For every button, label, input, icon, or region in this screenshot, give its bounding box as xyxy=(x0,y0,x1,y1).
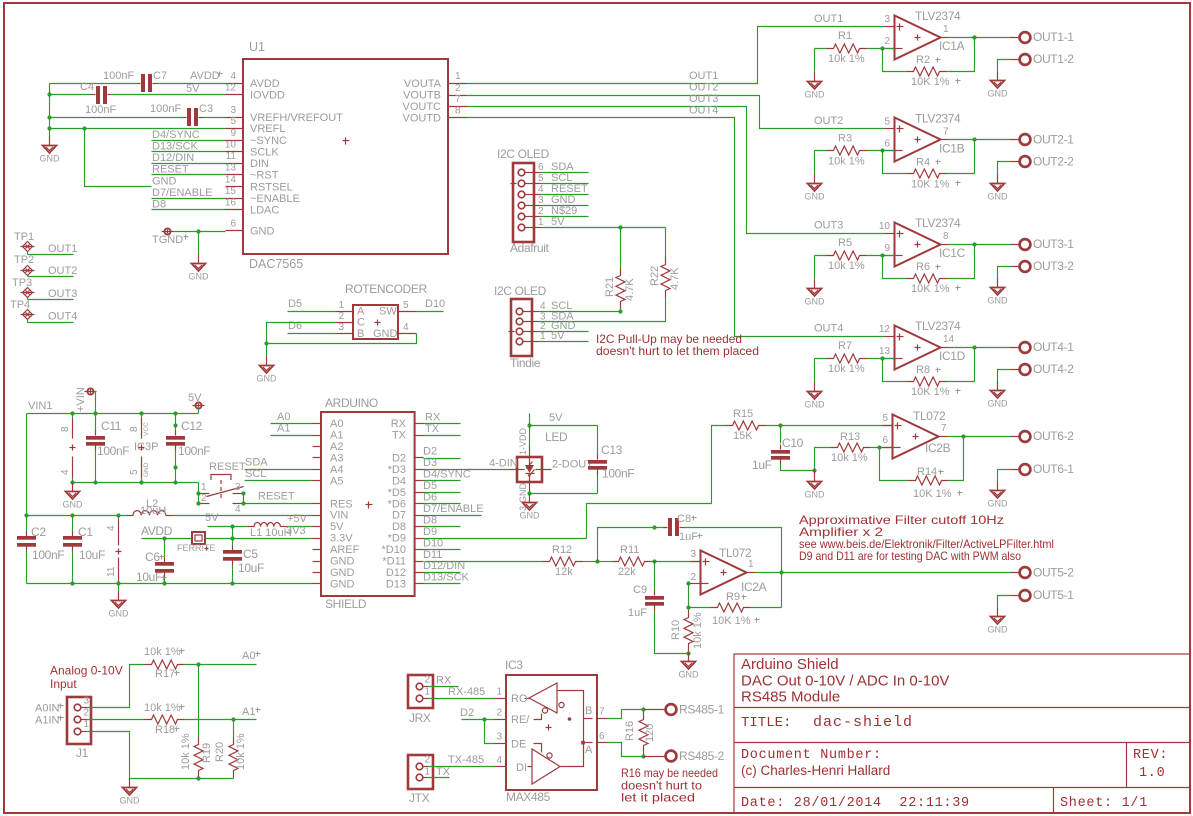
ground symbol GND under OUT6-1 xyxy=(997,482,999,491)
svg-text:7: 7 xyxy=(455,94,461,105)
capacitor C4 100nF xyxy=(96,86,100,104)
wire net D4/SYNC stub xyxy=(424,480,461,482)
svg-text:IC2A: IC2A xyxy=(741,580,767,594)
ground symbol GND under OUT1-2 xyxy=(997,72,999,81)
svg-text:3: 3 xyxy=(230,105,236,116)
svg-text:R15: R15 xyxy=(733,408,753,420)
op-amp power pins IC2P pin8 pin4 xyxy=(72,414,74,419)
svg-text:GND: GND xyxy=(988,192,1009,202)
output pad OUT1-2 xyxy=(1011,59,1020,61)
svg-text:5: 5 xyxy=(538,173,544,184)
svg-text:10: 10 xyxy=(879,221,891,232)
wire net OUT2 stub xyxy=(27,276,29,277)
svg-text:C1: C1 xyxy=(78,525,93,539)
IC ARDUINO SHIELD body xyxy=(321,412,415,596)
svg-text:R14: R14 xyxy=(917,466,937,478)
svg-text:10k 1%: 10k 1% xyxy=(692,612,704,649)
wire net A1 to arduino xyxy=(271,435,313,437)
svg-text:12: 12 xyxy=(225,83,237,94)
svg-text:14: 14 xyxy=(943,334,955,345)
svg-text:ARDUINO: ARDUINO xyxy=(325,396,378,410)
ground symbol GND under OUT4-2 xyxy=(997,382,999,391)
svg-text:let it placed: let it placed xyxy=(621,791,695,805)
svg-text:~ENABLE: ~ENABLE xyxy=(250,193,300,205)
svg-text:6: 6 xyxy=(884,139,890,150)
wire R1 right junction to inverting input xyxy=(867,48,895,50)
wire net AVDD top rail xyxy=(49,84,51,138)
LED diode symbol xyxy=(518,469,525,471)
svg-text:JRX: JRX xyxy=(409,711,431,725)
wire net SDA from Adafruit xyxy=(541,172,589,174)
wire net D7/ENABLE stub xyxy=(424,515,482,517)
svg-text:R22: R22 xyxy=(649,266,661,286)
svg-text:10K 1%: 10K 1% xyxy=(911,386,950,398)
wire output of IC1A xyxy=(949,37,1013,39)
svg-text:OUT3: OUT3 xyxy=(48,288,77,300)
svg-text:TL072: TL072 xyxy=(719,546,752,560)
svg-text:DIN: DIN xyxy=(250,158,269,170)
svg-text:DAC Out 0-10V / ADC In 0-10V: DAC Out 0-10V / ADC In 0-10V xyxy=(741,673,949,690)
wire IC2A output to OUT5-2 xyxy=(755,572,1013,574)
svg-text:100nF: 100nF xyxy=(103,70,134,82)
svg-text:SCLK: SCLK xyxy=(250,147,279,159)
svg-text:D8: D8 xyxy=(152,199,166,211)
svg-text:GND: GND xyxy=(988,625,1009,635)
svg-text:OUT3: OUT3 xyxy=(689,93,718,105)
svg-text:OUT1: OUT1 xyxy=(48,243,77,255)
svg-text:+VIN: +VIN xyxy=(75,387,87,412)
svg-text:TP2: TP2 xyxy=(14,254,34,266)
svg-text:IC1B: IC1B xyxy=(939,142,965,156)
svg-text:120: 120 xyxy=(644,724,656,742)
svg-text:7: 7 xyxy=(943,127,949,138)
svg-text:R19: R19 xyxy=(201,743,213,763)
svg-text:~RST: ~RST xyxy=(250,170,279,182)
svg-text:4: 4 xyxy=(60,469,71,475)
svg-text:OUT1-1: OUT1-1 xyxy=(1033,30,1074,44)
svg-text:R8: R8 xyxy=(916,364,930,376)
svg-text:1: 1 xyxy=(338,300,344,311)
svg-text:D7: D7 xyxy=(392,510,406,522)
wire LED GND to C13 bottom xyxy=(530,493,598,495)
svg-text:RX: RX xyxy=(436,675,452,687)
svg-text:4-DIN: 4-DIN xyxy=(489,458,518,470)
ground symbol GND under TGND xyxy=(198,255,200,264)
test point TP1 xyxy=(23,242,33,252)
svg-text:4: 4 xyxy=(235,504,241,515)
JRX pins xyxy=(416,683,423,690)
svg-text:A1: A1 xyxy=(330,430,343,442)
svg-text:2: 2 xyxy=(538,206,544,217)
svg-text:R13: R13 xyxy=(840,431,860,443)
svg-text:C4: C4 xyxy=(80,81,94,93)
test point TGND xyxy=(164,228,170,234)
svg-text:D7/ENABLE: D7/ENABLE xyxy=(423,503,484,515)
svg-text:Tindie: Tindie xyxy=(510,356,541,370)
svg-text:15K: 15K xyxy=(733,430,753,442)
LED pin DIN xyxy=(509,469,518,471)
svg-text:RS485 Module: RS485 Module xyxy=(741,689,840,706)
svg-text:TLV2374: TLV2374 xyxy=(915,216,961,230)
svg-text:10K 1%: 10K 1% xyxy=(913,488,952,500)
svg-text:R9: R9 xyxy=(726,591,740,603)
svg-text:1.0: 1.0 xyxy=(1139,766,1165,781)
wire output of IC1C xyxy=(949,244,1013,246)
wire GND rail under C11 C12 xyxy=(73,482,199,484)
rotary encoder body ROTENCODER xyxy=(353,305,398,339)
svg-text:10k 1%: 10k 1% xyxy=(180,733,192,770)
svg-text:9: 9 xyxy=(884,243,890,254)
wire net VIN1 top rail xyxy=(27,413,199,415)
svg-text:100nF: 100nF xyxy=(97,444,129,458)
connector JTX body xyxy=(408,755,433,789)
svg-text:*D3: *D3 xyxy=(388,464,406,476)
LED pin GND xyxy=(529,483,531,494)
wire net from D9 filter riser to R15 xyxy=(587,426,726,539)
svg-text:AVDD: AVDD xyxy=(141,524,173,538)
svg-text:TX-485: TX-485 xyxy=(448,754,484,766)
svg-text:3: 3 xyxy=(538,195,544,206)
wire net RESET from Adafruit xyxy=(541,194,589,196)
Tindie connector pins xyxy=(523,311,539,313)
svg-text:AVDD: AVDD xyxy=(250,78,280,90)
svg-text:R5: R5 xyxy=(838,237,852,249)
svg-text:C2: C2 xyxy=(31,525,46,539)
ground symbol GND under OUT3-2 xyxy=(997,279,999,288)
wire net SDA to Tindie xyxy=(539,321,589,323)
resistor R14 10K 1% feedback xyxy=(880,448,909,481)
svg-text:5: 5 xyxy=(882,413,888,424)
svg-text:10k 1%: 10k 1% xyxy=(828,260,865,272)
svg-text:RE/: RE/ xyxy=(511,714,530,726)
svg-text:dac-shield: dac-shield xyxy=(813,714,913,731)
MAX485 internal enable wires xyxy=(534,714,542,720)
svg-text:~SYNC: ~SYNC xyxy=(250,135,287,147)
test point TP3 xyxy=(23,288,33,298)
wire OUT1-2 to ground xyxy=(998,60,1011,72)
svg-text:1uF: 1uF xyxy=(679,531,698,543)
svg-text:GND: GND xyxy=(189,272,210,282)
wire net D5 stub xyxy=(424,492,461,494)
svg-text:D6: D6 xyxy=(288,320,302,332)
wire net SDA to arduino A4 xyxy=(245,469,313,471)
svg-text:OUT4: OUT4 xyxy=(689,105,718,117)
svg-text:12k: 12k xyxy=(555,566,573,578)
svg-text:R11: R11 xyxy=(620,544,639,556)
svg-text:RESET: RESET xyxy=(258,491,295,503)
wire net VREFH row xyxy=(50,117,183,119)
svg-text:B: B xyxy=(585,705,592,717)
svg-text:A: A xyxy=(585,744,593,756)
LED WS2812 body xyxy=(517,457,542,482)
output pad OUT1-1 xyxy=(1011,37,1020,39)
svg-text:6: 6 xyxy=(599,731,605,742)
wire VREFL to GND pin14 xyxy=(85,129,152,187)
svg-text:RX: RX xyxy=(425,412,441,424)
svg-text:4.7K: 4.7K xyxy=(669,267,681,290)
IC IC3 MAX485 body xyxy=(506,675,597,790)
svg-text:LDAC: LDAC xyxy=(250,205,279,217)
wire net D11 from arduino to R12 xyxy=(425,561,543,563)
svg-text:D13/SCK: D13/SCK xyxy=(423,572,470,584)
svg-text:2: 2 xyxy=(496,708,502,719)
svg-text:D2: D2 xyxy=(392,452,406,464)
svg-text:3.3V: 3.3V xyxy=(330,533,353,545)
capacitor C2 100nF xyxy=(26,516,28,534)
svg-text:RESET: RESET xyxy=(209,461,246,473)
svg-text:TLV2374: TLV2374 xyxy=(915,9,961,23)
svg-text:TX: TX xyxy=(436,766,451,778)
svg-text:J1: J1 xyxy=(76,746,89,760)
svg-text:*D10: *D10 xyxy=(382,544,406,556)
svg-text:5: 5 xyxy=(884,117,890,128)
svg-text:D13/SCK: D13/SCK xyxy=(152,141,199,153)
svg-text:*D5: *D5 xyxy=(388,487,406,499)
svg-text:A4: A4 xyxy=(330,464,343,476)
resistor R13 10k 1% xyxy=(831,443,871,452)
svg-text:GND: GND xyxy=(40,154,61,164)
svg-text:A2: A2 xyxy=(330,441,343,453)
test point 5V xyxy=(195,402,201,408)
resistor R1 10k 1% xyxy=(815,48,828,50)
svg-text:VOUTB: VOUTB xyxy=(403,90,441,102)
wire net D6 to encoder B xyxy=(288,333,336,335)
svg-text:VREFL: VREFL xyxy=(250,123,285,135)
wire VIN1 riser to L2 rail xyxy=(26,414,28,516)
svg-text:100nF: 100nF xyxy=(32,548,64,562)
wire R7 right junction to inverting input xyxy=(867,358,895,360)
wire R13 to IC2B pin6 xyxy=(871,447,893,449)
svg-text:TGND: TGND xyxy=(152,234,183,246)
svg-text:1: 1 xyxy=(943,24,949,35)
wire C10 node to R13 xyxy=(815,448,831,471)
ground symbol GND under R1 xyxy=(815,48,827,50)
svg-text:I2C OLED: I2C OLED xyxy=(494,284,547,298)
resistor R11 22k xyxy=(612,557,652,566)
svg-text:11: 11 xyxy=(226,151,237,162)
capacitor C10 1uF xyxy=(780,426,782,444)
output pad RS485-1 xyxy=(644,709,666,711)
svg-text:8: 8 xyxy=(943,231,949,242)
wire net D12/DIN stub xyxy=(424,572,461,574)
wire net RX-485 JRX to MAX485 RO xyxy=(428,698,495,700)
wire R15 to IC2B pin5 xyxy=(766,425,893,427)
wire net GND from Adafruit xyxy=(541,205,589,207)
wire net 5V for LED xyxy=(529,414,531,446)
svg-text:3V3: 3V3 xyxy=(286,525,306,537)
net label rows D4/SYNC D13/SCK D12/DIN RESET GND D7/ENABLE D8 xyxy=(152,140,226,142)
svg-text:1: 1 xyxy=(496,687,502,698)
wire net D5 to encoder A xyxy=(288,311,336,313)
svg-text:4: 4 xyxy=(496,755,502,766)
svg-text:A1: A1 xyxy=(242,706,255,718)
wire net SCL to arduino A5 xyxy=(245,480,313,482)
wire L1 to arduino 5V pin net +5V xyxy=(287,526,313,528)
wire net TX stub xyxy=(424,435,461,437)
svg-text:GND: GND xyxy=(520,511,541,521)
svg-text:RES: RES xyxy=(330,498,353,510)
wire net 5V from Adafruit to pullups xyxy=(541,227,666,229)
wire J1 pin3 to R17 xyxy=(87,665,145,708)
svg-text:5: 5 xyxy=(129,469,140,475)
wire J1 pin2 to R18 xyxy=(87,719,145,721)
svg-text:Date: 28/01/2014 22:11:39: Date: 28/01/2014 22:11:39 xyxy=(741,796,970,811)
ground symbol GND under R10 C9 xyxy=(688,653,690,662)
svg-text:1: 1 xyxy=(425,687,431,698)
resistor R20 10k 1% to ground xyxy=(233,720,235,738)
op-amp IC1B TLV2374 xyxy=(895,118,941,162)
svg-text:SW: SW xyxy=(379,306,397,318)
svg-text:A0: A0 xyxy=(330,418,343,430)
ground symbol GND under C11 rail xyxy=(72,483,74,492)
svg-text:100nF: 100nF xyxy=(150,103,181,115)
svg-text:100nF: 100nF xyxy=(85,104,116,116)
svg-text:5: 5 xyxy=(403,300,409,311)
resistor R15 15K xyxy=(726,421,766,430)
svg-text:R18: R18 xyxy=(155,724,175,736)
svg-text:TITLE:: TITLE: xyxy=(741,715,791,731)
svg-text:C6: C6 xyxy=(145,550,160,564)
svg-text:6: 6 xyxy=(230,219,236,230)
U1 left pin stubs xyxy=(226,83,244,85)
wire L2 to arduino VIN pin xyxy=(174,515,313,517)
svg-text:RO: RO xyxy=(511,693,528,705)
output pad OUT4-1 xyxy=(1011,347,1020,349)
svg-text:*D11: *D11 xyxy=(382,556,406,568)
MAX485 receiver triangle xyxy=(529,683,557,713)
svg-text:GND: GND xyxy=(805,297,826,307)
title block dividers xyxy=(735,707,1191,709)
svg-text:2: 2 xyxy=(425,755,431,766)
wire net SCL from Adafruit xyxy=(541,183,589,185)
svg-text:10uH: 10uH xyxy=(140,505,166,517)
svg-text:4: 4 xyxy=(106,525,117,531)
svg-text:GND: GND xyxy=(988,296,1009,306)
svg-text:VCC: VCC xyxy=(143,422,150,436)
svg-text:D5: D5 xyxy=(288,298,302,310)
svg-text:LED: LED xyxy=(545,430,568,444)
svg-text:3: 3 xyxy=(884,14,890,25)
ground symbol GND analog xyxy=(129,779,131,788)
svg-text:A3: A3 xyxy=(330,452,343,464)
wire R11 right junction to IC2A pin3 xyxy=(598,561,613,563)
output pad OUT6-2 xyxy=(1011,436,1020,438)
svg-text:12: 12 xyxy=(879,324,891,335)
svg-text:3: 3 xyxy=(84,696,90,707)
svg-text:D8: D8 xyxy=(392,521,406,533)
svg-text:RS485-2: RS485-2 xyxy=(679,749,725,763)
svg-text:7: 7 xyxy=(941,423,947,434)
svg-text:IC1A: IC1A xyxy=(939,39,965,53)
svg-text:2: 2 xyxy=(425,675,431,686)
svg-text:GND: GND xyxy=(805,490,826,500)
svg-text:1: 1 xyxy=(84,719,90,730)
svg-text:1: 1 xyxy=(425,767,431,778)
ferrite bead xyxy=(192,532,205,544)
svg-text:C8: C8 xyxy=(677,513,691,525)
capacitor C7 100nF xyxy=(141,74,145,92)
wire encoder C and GND pin4 to ground xyxy=(267,323,417,344)
output pad OUT5-2 xyxy=(1011,572,1020,574)
svg-text:3: 3 xyxy=(496,732,502,743)
wire junction riser to C8 xyxy=(598,528,667,562)
svg-text:Sheet: 1/1: Sheet: 1/1 xyxy=(1060,796,1148,811)
svg-text:A1IN: A1IN xyxy=(35,715,60,727)
svg-text:R3: R3 xyxy=(838,133,852,145)
svg-text:OUT3-1: OUT3-1 xyxy=(1033,237,1074,251)
wire net TX stub from JTX xyxy=(428,777,450,779)
svg-text:5V: 5V xyxy=(205,512,219,524)
svg-text:OUT2: OUT2 xyxy=(48,265,77,277)
svg-text:1uF: 1uF xyxy=(628,607,647,619)
svg-text:22k: 22k xyxy=(618,566,636,578)
wire net RX stub xyxy=(424,423,461,425)
wire net 5V to Tindie xyxy=(539,341,589,343)
svg-text:GND: GND xyxy=(805,90,826,100)
svg-text:1uF: 1uF xyxy=(752,458,772,472)
svg-text:4: 4 xyxy=(403,322,409,333)
svg-text:D4/SYNC: D4/SYNC xyxy=(423,469,471,481)
Adafruit connector pins xyxy=(525,172,541,174)
svg-text:8: 8 xyxy=(455,106,461,117)
svg-text:10: 10 xyxy=(225,140,237,151)
svg-text:10k 1%: 10k 1% xyxy=(828,156,865,168)
resistor R12 12k xyxy=(543,557,583,566)
output pad OUT5-1 xyxy=(1011,595,1020,597)
svg-text:D12/DIN: D12/DIN xyxy=(423,560,465,572)
svg-text:IC1C: IC1C xyxy=(939,246,966,260)
svg-text:4: 4 xyxy=(540,301,546,312)
svg-text:10k 1%: 10k 1% xyxy=(828,363,865,375)
svg-text:GND: GND xyxy=(330,567,355,579)
svg-text:15: 15 xyxy=(225,186,237,197)
svg-text:RESET: RESET xyxy=(152,164,189,176)
svg-text:doesn't hurt to let them place: doesn't hurt to let them placed xyxy=(596,344,759,358)
svg-text:3: 3 xyxy=(235,482,241,493)
wire IC2B output xyxy=(947,436,1013,438)
capacitor C9 1uF xyxy=(654,562,656,591)
resistor R9 10K 1% feedback xyxy=(689,607,711,609)
op-amp IC1D TLV2374 xyxy=(895,326,941,370)
svg-text:10K 1%: 10K 1% xyxy=(911,179,950,191)
svg-text:1: 1 xyxy=(455,71,461,82)
svg-text:TX: TX xyxy=(392,430,407,442)
svg-text:13: 13 xyxy=(879,346,891,357)
connector J1 body xyxy=(67,697,91,744)
wire OUT5-1 to ground xyxy=(998,596,1011,608)
wire net D3 to LED xyxy=(424,469,509,471)
svg-text:10uF: 10uF xyxy=(79,548,105,562)
inductor L1 10uH xyxy=(248,526,255,528)
wire net GND to Tindie xyxy=(539,331,589,333)
svg-text:D12: D12 xyxy=(386,567,406,579)
svg-text:VIN1: VIN1 xyxy=(28,400,52,412)
wire net D10 from encoder SW xyxy=(417,311,444,313)
svg-text:3: 3 xyxy=(690,549,696,560)
svg-text:IC3: IC3 xyxy=(505,658,523,672)
wire net D6 stub xyxy=(424,503,461,505)
svg-text:D6: D6 xyxy=(423,492,437,504)
resistor R22 4.7K pullup xyxy=(665,228,667,258)
wire net OUT4 from VOUTD to IC1D xyxy=(467,118,885,337)
svg-text:D12/DIN: D12/DIN xyxy=(152,152,194,164)
svg-text:C11: C11 xyxy=(101,419,122,433)
wire OUT3-2 to ground xyxy=(998,267,1011,279)
ground symbol GND under OUT2-2 xyxy=(997,175,999,184)
wire net D10 stub xyxy=(424,549,461,551)
svg-text:DE: DE xyxy=(511,739,526,751)
svg-text:GND: GND xyxy=(805,400,826,410)
